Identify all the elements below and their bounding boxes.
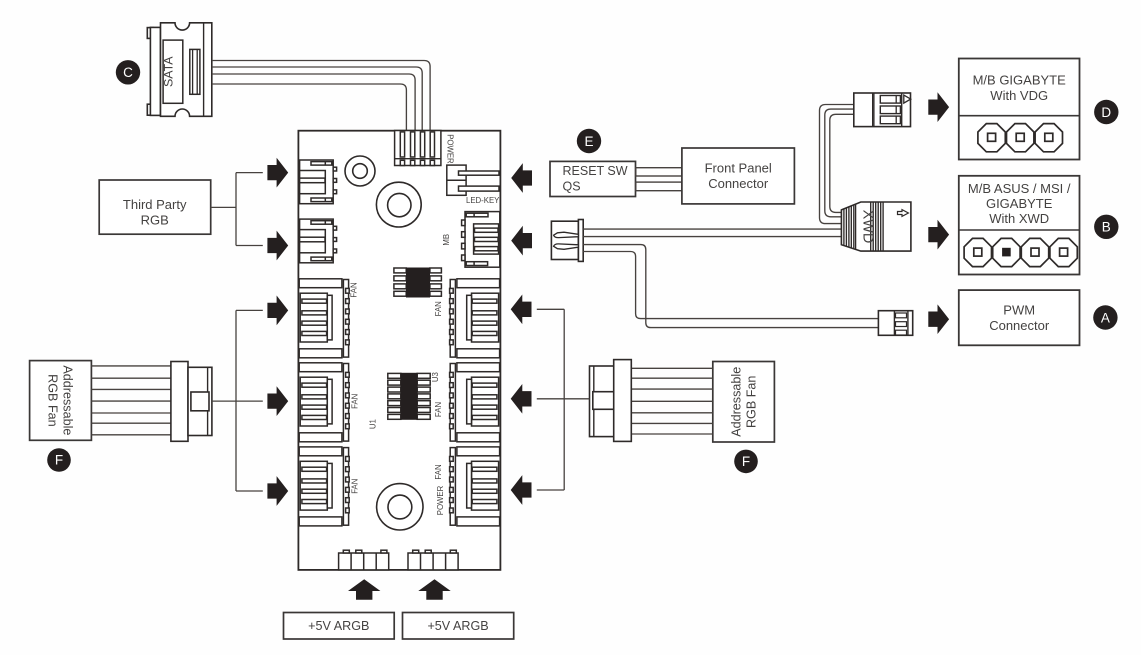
svg-text:FAN: FAN — [434, 301, 443, 316]
POWER input header J-PWR — [395, 131, 441, 166]
XWD pin sockets (4, one keyed) — [964, 238, 991, 266]
arrow into MB header — [511, 226, 532, 256]
arrow into FAN F4 — [511, 294, 532, 324]
ribbon cable: SATA plug to POWER header (4 lines) — [212, 61, 430, 132]
mounting hole H1 — [345, 156, 375, 186]
svg-text:SATA: SATA — [162, 56, 176, 87]
cable band: plug to XWD — [583, 228, 841, 230]
arrow into JR1 — [267, 158, 288, 188]
svg-text:RGB: RGB — [141, 212, 169, 227]
svg-text:GIGABYTE: GIGABYTE — [986, 196, 1053, 211]
Third Party RGB box — [99, 180, 211, 234]
svg-text:AddressableRGB Fan: AddressableRGB Fan — [730, 367, 759, 437]
IC U2 (8-pin) — [394, 268, 442, 296]
FAN header F1 (left) — [299, 279, 349, 358]
mounting hole H3 — [377, 484, 423, 530]
arrow to PWM connector box — [928, 304, 949, 334]
VDG connector — [854, 93, 911, 127]
XWD polarity arrow — [898, 210, 909, 217]
ribbon: reset switch to front panel (2 wires) — [636, 168, 682, 176]
svg-text:QS: QS — [563, 179, 581, 193]
arrow to M/B ASUS XWD box — [928, 220, 949, 250]
svg-text:LED-KEY: LED-KEY — [466, 196, 500, 205]
branch bracket (right fans) — [563, 309, 565, 490]
svg-text:D: D — [1101, 105, 1111, 120]
svg-text:M/B GIGABYTE: M/B GIGABYTE — [973, 73, 1067, 88]
box A: PWM Connector — [959, 290, 1080, 345]
svg-text:F: F — [55, 453, 63, 468]
cable band: XWD to VDG (3 lines) — [820, 105, 854, 224]
svg-text:+5V ARGB: +5V ARGB — [308, 619, 369, 633]
Addressable RGB Fan box (right) — [713, 362, 775, 443]
svg-text:FAN: FAN — [434, 402, 443, 417]
label circle E — [577, 129, 601, 153]
XWD connector body — [841, 202, 911, 251]
arrow into JR2 — [267, 231, 288, 261]
+5V ARGB box 2 — [403, 613, 514, 640]
arrow into FAN F5 — [511, 384, 532, 414]
box B: M/B ASUS / MSI / GIGABYTE With XWD — [959, 176, 1080, 275]
arrow into FAN F2 — [267, 386, 288, 416]
arrow into LED-KEY — [511, 163, 532, 193]
wire: plug to branch — [212, 400, 263, 402]
svg-text:With XWD: With XWD — [989, 211, 1049, 226]
svg-text:+5V ARGB: +5V ARGB — [427, 619, 488, 633]
label circle A — [1093, 305, 1117, 329]
svg-text:With VDG: With VDG — [990, 88, 1048, 103]
FAN header F3 (left) — [299, 447, 349, 526]
FAN header F5 (right) — [450, 363, 500, 442]
svg-text:U3: U3 — [431, 372, 440, 382]
FAN header F2 (left) — [299, 363, 349, 442]
branch bracket (third party RGB) — [235, 173, 237, 246]
fan plug (left F) — [171, 362, 212, 442]
svg-text:POWER: POWER — [446, 134, 455, 164]
wire: box to branch — [211, 206, 236, 208]
label circle D — [1094, 100, 1118, 124]
FAN header F4 (right) — [450, 279, 500, 358]
svg-text:XWD: XWD — [859, 210, 875, 244]
arrow into FAN F1 — [267, 296, 288, 326]
svg-text:Third Party: Third Party — [123, 197, 187, 212]
svg-text:Connector: Connector — [989, 318, 1050, 333]
svg-text:M/B ASUS / MSI /: M/B ASUS / MSI / — [968, 181, 1071, 196]
svg-text:RESET SW: RESET SW — [563, 164, 628, 178]
svg-text:AddressableRGB Fan: AddressableRGB Fan — [45, 365, 74, 435]
PWM connector — [878, 311, 912, 336]
svg-text:MB: MB — [442, 234, 451, 246]
FAN header F6 (right) — [450, 447, 500, 526]
label circle B — [1094, 215, 1118, 239]
VDG pin sockets (3) — [978, 124, 1005, 152]
LED-KEY header — [447, 165, 499, 195]
connector C: SATA power plug body — [147, 23, 212, 117]
svg-text:FAN: FAN — [349, 282, 358, 297]
svg-text:F: F — [742, 454, 750, 469]
IC U1 (14-pin) — [388, 373, 430, 419]
up arrow to header J6 — [418, 579, 450, 600]
svg-text:POWER: POWER — [436, 485, 445, 515]
MB output header — [462, 212, 500, 268]
harness plug P1 — [551, 220, 583, 262]
ribbon cable: left fan box to plug — [91, 365, 170, 367]
Addressable RGB Fan box (left) — [30, 361, 92, 441]
RESET SW QS box — [550, 161, 636, 196]
3-pin RGB header JR2 — [300, 219, 337, 263]
SATA label plate — [163, 40, 183, 103]
svg-text:Connector: Connector — [708, 176, 769, 191]
svg-text:A: A — [1101, 310, 1110, 325]
+5V ARGB box 1 — [284, 613, 395, 640]
label circle C — [116, 60, 140, 84]
svg-text:Front Panel: Front Panel — [705, 161, 772, 176]
XWD strain relief ribs — [843, 209, 845, 246]
arrow to M/B GIGABYTE VDG box — [928, 92, 949, 122]
up arrow to header J5 — [348, 579, 380, 600]
svg-text:U1: U1 — [369, 419, 378, 429]
PCB hub board outline — [298, 131, 500, 570]
branch bracket (left fans) — [235, 310, 237, 491]
XWD body ribs — [870, 202, 872, 251]
mounting hole H2 — [376, 182, 421, 227]
label circle F (left) — [47, 448, 71, 472]
svg-text:E: E — [584, 134, 593, 149]
svg-text:PWM: PWM — [1003, 303, 1035, 318]
box D: M/B GIGABYTE With VDG — [959, 59, 1080, 160]
3-pin RGB header JR1 — [300, 160, 337, 204]
arrow into FAN F6 — [511, 475, 532, 505]
ribbon cable: right fan box to plug — [631, 367, 713, 369]
SATA slot detail — [190, 49, 200, 94]
label circle F (right) — [734, 450, 758, 474]
ARGB output header J6 — [408, 550, 458, 570]
fan plug (right F) — [590, 360, 632, 442]
svg-text:FAN: FAN — [351, 394, 360, 409]
svg-text:FAN: FAN — [350, 479, 359, 494]
ARGB output header J5 — [339, 550, 389, 570]
svg-text:B: B — [1102, 220, 1111, 235]
cable band: plug to PWM connector — [583, 245, 878, 328]
arrow into FAN F3 — [267, 476, 288, 506]
Front Panel Connector box — [682, 148, 795, 204]
svg-text:C: C — [123, 65, 133, 80]
svg-text:FAN: FAN — [434, 464, 443, 479]
wire: right plug to branch — [537, 398, 590, 400]
